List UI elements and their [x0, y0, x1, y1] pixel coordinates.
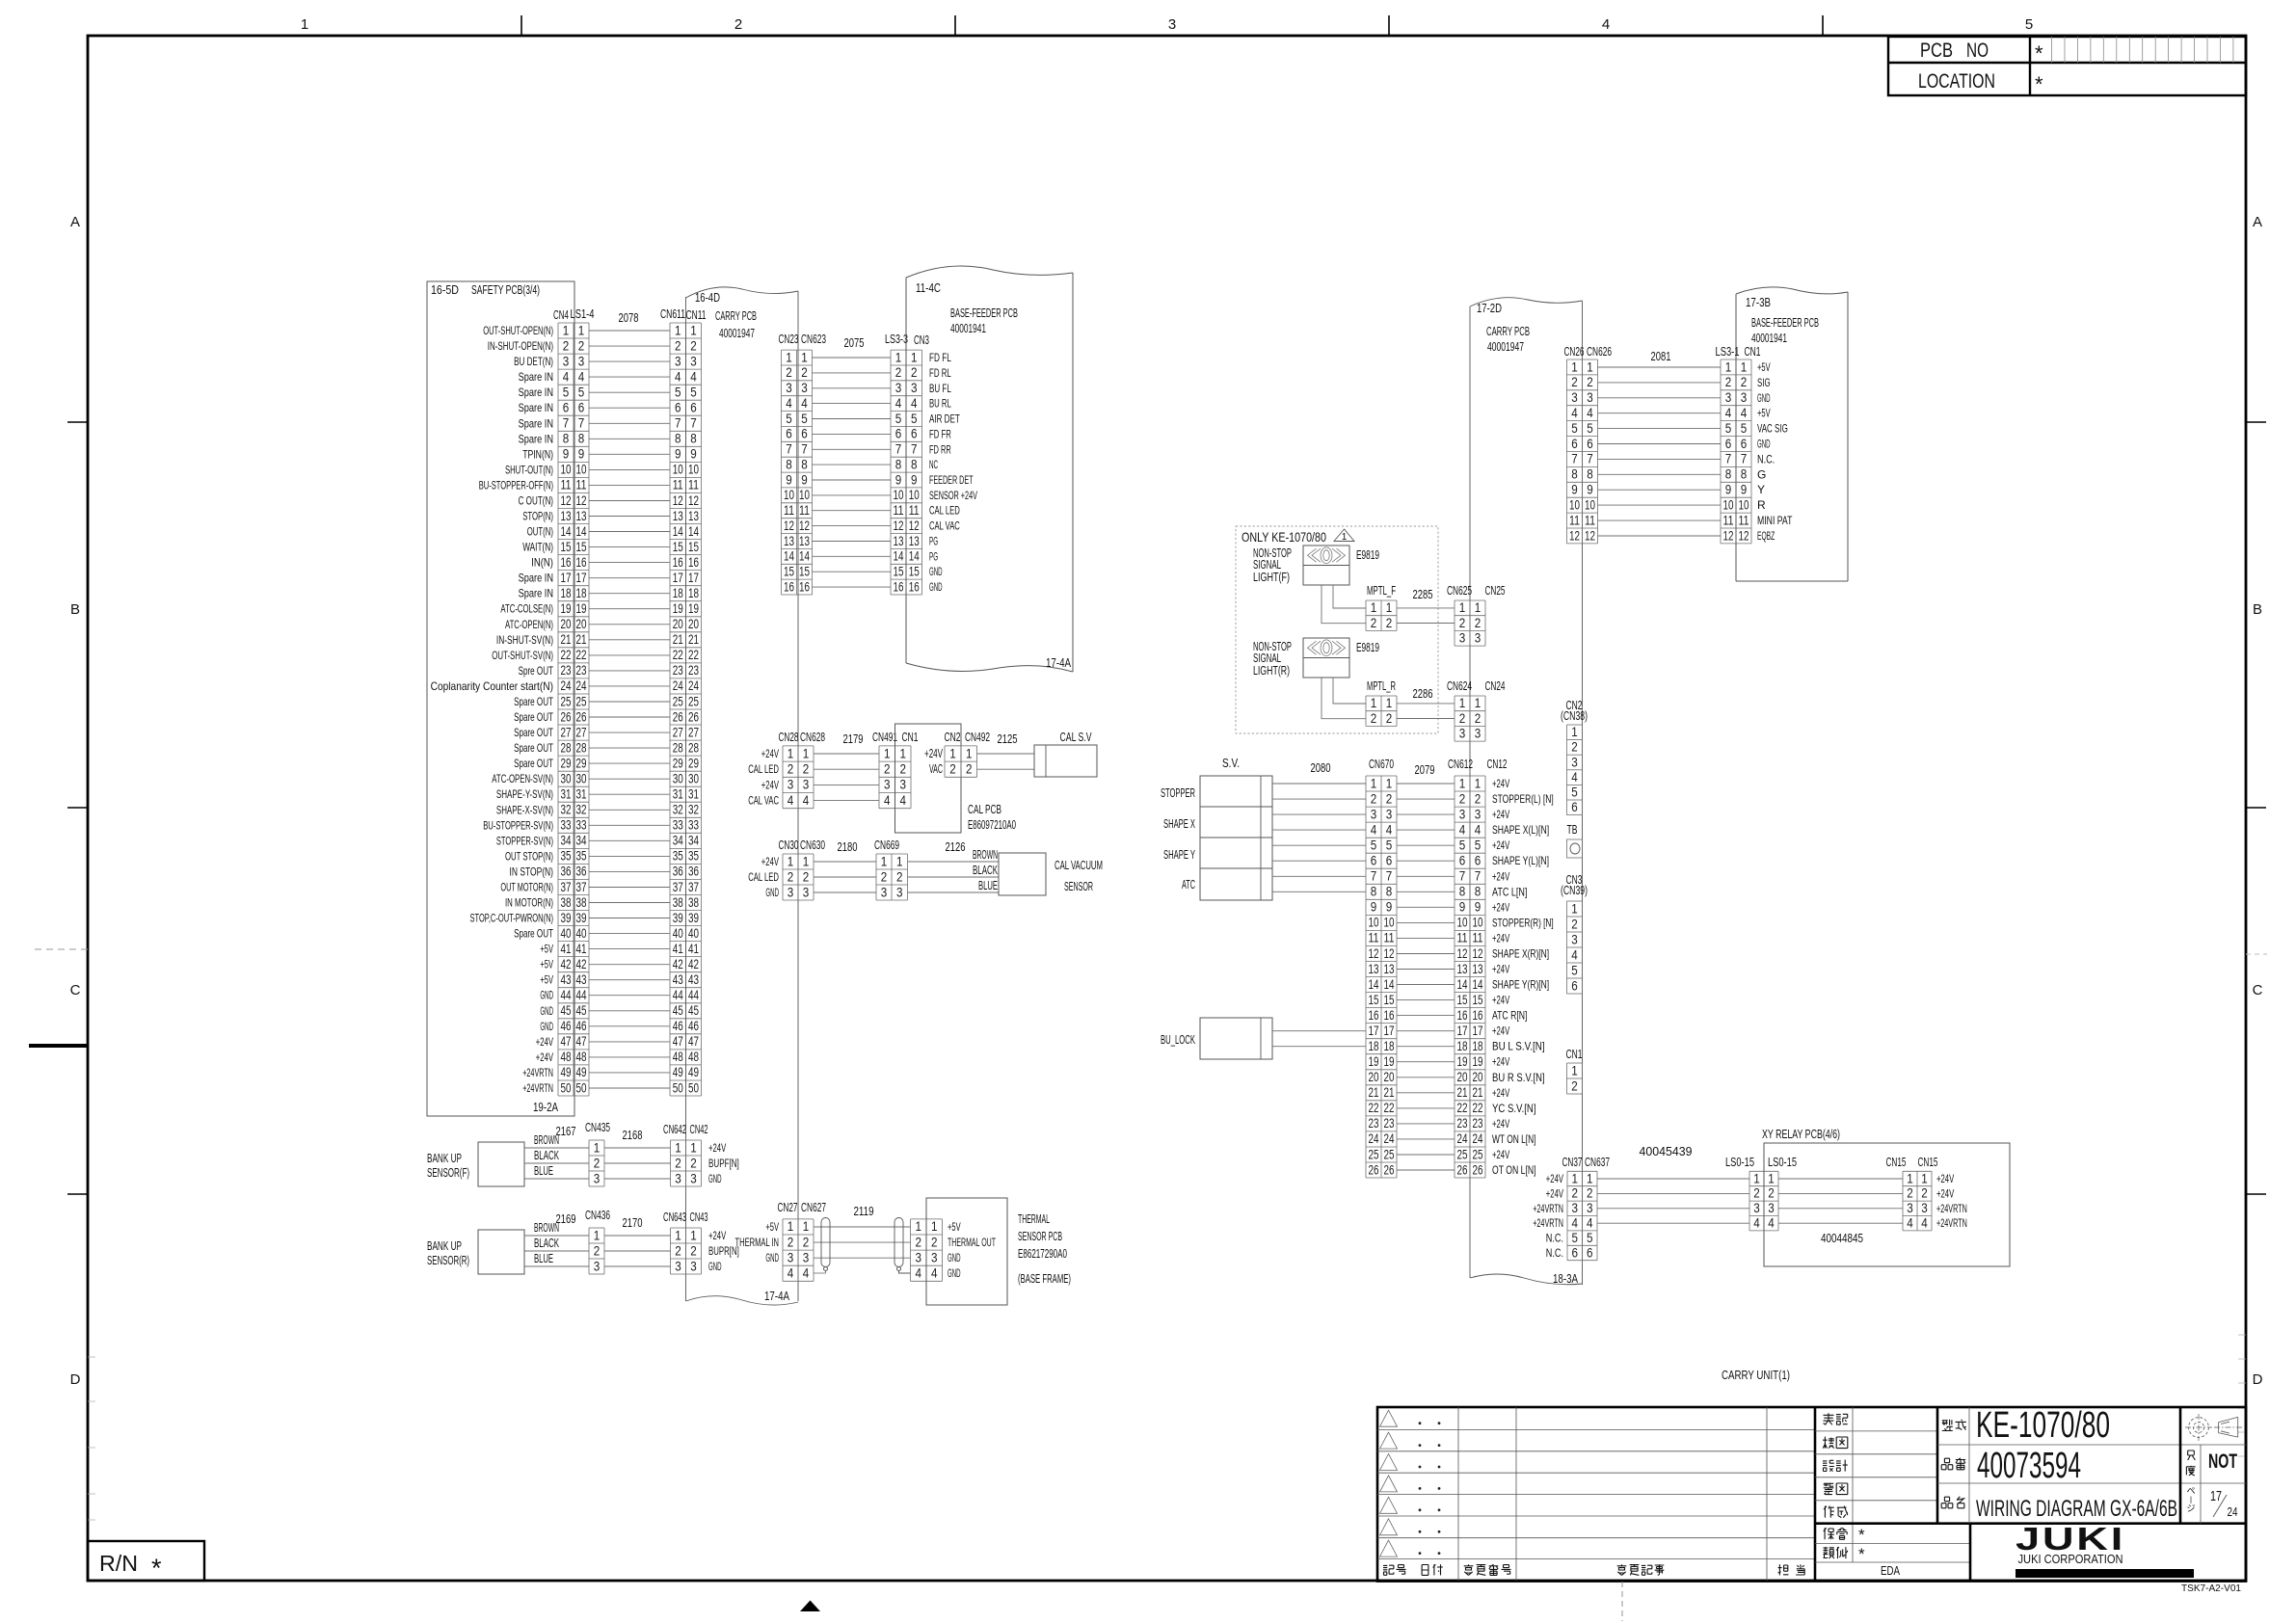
svg-text:26: 26	[1473, 1161, 1483, 1177]
svg-text:Spare OUT: Spare OUT	[514, 757, 553, 770]
svg-text:CN625: CN625	[1447, 583, 1472, 598]
CN3 signal labels	[929, 351, 977, 594]
svg-text:40: 40	[673, 925, 683, 941]
svg-text:44: 44	[688, 987, 699, 1002]
approval section labels	[1815, 1407, 1937, 1562]
svg-text:3: 3	[1921, 1200, 1928, 1215]
svg-text:OUT(N): OUT(N)	[527, 525, 553, 539]
svg-text:2075: 2075	[844, 335, 865, 350]
svg-text:CN23: CN23	[779, 332, 799, 346]
connector CN670 pin table	[1366, 757, 1397, 1178]
svg-text:1: 1	[1921, 1170, 1928, 1185]
svg-text:4: 4	[1475, 821, 1482, 837]
svg-text:STOPPER(L) [N]: STOPPER(L) [N]	[1492, 792, 1554, 806]
svg-text:SHAPE Y(L)[N]: SHAPE Y(L)[N]	[1492, 854, 1549, 867]
svg-text:2285: 2285	[1413, 587, 1433, 601]
svg-text:40: 40	[576, 925, 587, 941]
svg-text:BLUE: BLUE	[534, 1163, 553, 1178]
svg-text:+24V: +24V	[1492, 1024, 1509, 1038]
svg-text:LS1-4: LS1-4	[571, 306, 595, 321]
svg-text:ATC L[N]: ATC L[N]	[1492, 885, 1527, 898]
svg-text:+5V: +5V	[1757, 360, 1771, 374]
svg-text:9: 9	[895, 471, 902, 487]
svg-text:ジ: ジ	[2186, 1503, 2195, 1513]
svg-text:*: *	[1858, 1545, 1865, 1563]
PCB THERMAL SENSOR PCB box	[926, 1198, 1071, 1305]
svg-text:16: 16	[673, 554, 683, 570]
connector MPTL_F pin table	[1366, 583, 1397, 630]
svg-text:27: 27	[561, 724, 572, 739]
svg-text:20: 20	[1457, 1069, 1468, 1084]
svg-text:*: *	[2035, 72, 2043, 96]
svg-text:2: 2	[916, 1234, 922, 1249]
svg-text:MPTL_F: MPTL_F	[1367, 583, 1396, 598]
svg-text:8: 8	[911, 456, 918, 471]
sheet center dashed mark left	[35, 949, 2267, 954]
svg-text:22: 22	[688, 647, 699, 662]
svg-text:Spare IN: Spare IN	[519, 572, 553, 585]
svg-text:*: *	[151, 1554, 162, 1583]
svg-text:3: 3	[1459, 806, 1466, 821]
svg-text:3: 3	[803, 777, 810, 792]
svg-text:2: 2	[675, 1242, 681, 1258]
svg-text:21: 21	[1473, 1084, 1483, 1100]
svg-text:9: 9	[1725, 482, 1732, 497]
svg-text:CN26: CN26	[1564, 344, 1585, 359]
svg-text:SENSOR +24V: SENSOR +24V	[929, 489, 977, 502]
wire harness 2180 (3 wires)	[814, 839, 876, 892]
svg-text:4: 4	[900, 792, 907, 808]
svg-text:10: 10	[1739, 496, 1749, 512]
thermal out pin table	[911, 1218, 997, 1281]
svg-text:7: 7	[1475, 868, 1482, 884]
svg-text:EDA: EDA	[1881, 1563, 1900, 1578]
svg-text:41: 41	[561, 941, 572, 956]
svg-text:1: 1	[896, 853, 903, 868]
svg-text:2: 2	[1371, 615, 1377, 630]
svg-text:3: 3	[1741, 389, 1748, 405]
svg-text:33: 33	[561, 817, 572, 833]
svg-text:+5V: +5V	[1757, 407, 1771, 420]
svg-text:8: 8	[1741, 466, 1748, 482]
svg-text:13: 13	[909, 533, 920, 548]
svg-text:10: 10	[894, 487, 904, 502]
svg-text:2: 2	[803, 868, 810, 884]
svg-text:14: 14	[894, 548, 904, 564]
NON-STOP SIGNAL LIGHT(R) lamp symbol E9819	[1253, 638, 1379, 678]
CAL VACUUM SENSOR box	[999, 853, 1103, 895]
svg-text:29: 29	[576, 755, 587, 770]
svg-text:4: 4	[1386, 821, 1393, 837]
CN12 signal labels	[1492, 777, 1554, 1177]
svg-text:6: 6	[1475, 853, 1482, 868]
svg-text:12: 12	[1457, 945, 1468, 961]
svg-text:6: 6	[1587, 1244, 1593, 1260]
svg-text:1: 1	[301, 16, 308, 33]
svg-text:CAL VAC: CAL VAC	[748, 794, 779, 808]
svg-text:G: G	[1757, 467, 1766, 481]
svg-text:3: 3	[895, 380, 902, 395]
svg-text:IN(N): IN(N)	[531, 556, 553, 570]
svg-text:4: 4	[803, 792, 810, 808]
svg-text:10: 10	[1569, 496, 1580, 512]
svg-text:GND: GND	[540, 1020, 553, 1033]
svg-text:2: 2	[931, 1234, 938, 1249]
svg-text:4: 4	[1572, 1215, 1579, 1231]
svg-text:40073594: 40073594	[1977, 1446, 2081, 1486]
svg-text:19: 19	[1457, 1053, 1468, 1069]
svg-text:14: 14	[561, 523, 572, 539]
svg-text:10: 10	[1473, 915, 1483, 930]
svg-text:24: 24	[1473, 1131, 1483, 1146]
svg-text:+24V: +24V	[924, 746, 943, 760]
sensor F lead wires BROWN BLACK BLUE	[524, 1124, 589, 1179]
svg-text:7: 7	[690, 415, 697, 431]
svg-text:4: 4	[1907, 1215, 1913, 1231]
svg-text:26: 26	[561, 708, 572, 724]
svg-text:+5V: +5V	[765, 1220, 779, 1234]
PCB SAFETY PCB(3/4) outline 16-5D	[427, 281, 574, 1116]
svg-text:1: 1	[1475, 695, 1482, 710]
svg-text:11: 11	[1457, 930, 1468, 945]
svg-text:18: 18	[1384, 1038, 1395, 1053]
svg-text:14: 14	[576, 523, 587, 539]
svg-text:1: 1	[803, 745, 810, 760]
svg-text:BASE-FEEDER PCB: BASE-FEEDER PCB	[950, 306, 1018, 320]
svg-text:2119: 2119	[854, 1204, 874, 1218]
svg-text:40: 40	[561, 925, 572, 941]
svg-text:14: 14	[1457, 976, 1468, 992]
svg-text:42: 42	[576, 956, 587, 971]
svg-text:22: 22	[561, 647, 572, 662]
svg-text:2180: 2180	[838, 839, 858, 854]
svg-text:2: 2	[788, 868, 794, 884]
svg-text:+24V: +24V	[761, 747, 779, 760]
svg-text:+24V: +24V	[1492, 808, 1509, 821]
svg-text:CN4: CN4	[553, 307, 569, 322]
svg-text:8: 8	[690, 431, 697, 446]
sensor R lead wires BROWN BLACK BLUE	[524, 1211, 589, 1266]
svg-text:+5V: +5V	[540, 958, 553, 971]
svg-text:5: 5	[1571, 420, 1578, 436]
svg-text:3: 3	[690, 1170, 697, 1185]
svg-text:4: 4	[916, 1265, 922, 1281]
svg-text:13: 13	[1369, 961, 1379, 976]
svg-text:4: 4	[1587, 1215, 1593, 1231]
svg-text:16-5D: 16-5D	[431, 282, 459, 297]
terminal TB	[1567, 822, 1583, 858]
svg-text:FD RR: FD RR	[929, 442, 951, 456]
svg-text:STOP,C-OUT-PWRON(N): STOP,C-OUT-PWRON(N)	[470, 912, 554, 925]
svg-text:33: 33	[673, 817, 683, 833]
svg-text:50: 50	[561, 1079, 572, 1095]
svg-text:CN1: CN1	[1745, 344, 1761, 359]
svg-text:9: 9	[1459, 899, 1466, 915]
svg-text:Spare IN: Spare IN	[519, 401, 553, 414]
svg-text:30: 30	[576, 771, 587, 786]
svg-text:1: 1	[1907, 1170, 1913, 1185]
svg-text:11: 11	[1723, 512, 1734, 527]
svg-text:2: 2	[1768, 1185, 1775, 1201]
svg-text:+24V: +24V	[1492, 777, 1509, 790]
svg-text:5: 5	[1371, 838, 1377, 853]
svg-text:15: 15	[1473, 992, 1483, 1007]
connector CN624 / CN24 pin table	[1447, 678, 1506, 741]
svg-text:SHAPE X(R)[N]: SHAPE X(R)[N]	[1492, 947, 1549, 961]
svg-text:LS0-15: LS0-15	[1725, 1155, 1754, 1169]
svg-text:2: 2	[911, 364, 918, 380]
svg-text:CARRY PCB: CARRY PCB	[715, 308, 757, 323]
svg-text:45: 45	[688, 1002, 699, 1018]
svg-text:CN623: CN623	[801, 332, 826, 346]
connector CN669 pin table	[874, 838, 908, 900]
connector CN30 / CN630 pin table	[748, 838, 825, 900]
svg-text:3: 3	[1907, 1200, 1913, 1215]
svg-text:SHAPE Y: SHAPE Y	[1163, 847, 1195, 862]
svg-text:CN670: CN670	[1369, 757, 1394, 771]
svg-text:IN-SHUT-SV(N): IN-SHUT-SV(N)	[496, 633, 553, 647]
svg-text:A: A	[2253, 214, 2262, 230]
svg-text:14: 14	[673, 523, 683, 539]
svg-text:LS0-15: LS0-15	[1768, 1155, 1797, 1169]
svg-text:+24V: +24V	[1492, 1148, 1509, 1161]
svg-text:BU L S.V.[N]: BU L S.V.[N]	[1492, 1040, 1545, 1053]
svg-text:SENSOR PCB: SENSOR PCB	[1018, 1229, 1062, 1243]
svg-text:CAL PCB: CAL PCB	[968, 802, 1001, 816]
svg-text:22: 22	[1384, 1100, 1395, 1115]
svg-text:YC S.V.[N]: YC S.V.[N]	[1492, 1102, 1536, 1115]
svg-text:FD FR: FD FR	[929, 427, 951, 440]
svg-text:11: 11	[1473, 930, 1483, 945]
fold dashed line below title block	[1621, 1582, 1623, 1621]
svg-text:TSK7-A2-V01: TSK7-A2-V01	[2181, 1583, 2241, 1594]
svg-text:CN630: CN630	[800, 838, 825, 852]
svg-text:IN STOP(N): IN STOP(N)	[510, 865, 554, 878]
svg-text:1: 1	[675, 1227, 681, 1242]
svg-text:BU-STOPPER-OFF(N): BU-STOPPER-OFF(N)	[479, 478, 553, 492]
CARRY UNIT(1) sheet note	[1722, 1368, 1790, 1382]
svg-text:D: D	[2253, 1371, 2263, 1388]
svg-text:9: 9	[563, 446, 570, 462]
svg-text:1: 1	[1386, 775, 1393, 790]
svg-text:12: 12	[1369, 945, 1379, 961]
svg-text:2: 2	[896, 868, 903, 884]
svg-text:1: 1	[803, 853, 810, 868]
svg-text:13: 13	[561, 508, 572, 523]
svg-text:SENSOR(F): SENSOR(F)	[427, 1165, 469, 1180]
svg-text:32: 32	[576, 802, 587, 817]
svg-text:FD RL: FD RL	[929, 366, 951, 380]
svg-text:21: 21	[1369, 1084, 1379, 1100]
svg-text:5: 5	[911, 411, 918, 426]
svg-text:48: 48	[561, 1049, 572, 1064]
svg-text:23: 23	[688, 662, 699, 678]
svg-text:CN30: CN30	[779, 838, 799, 852]
svg-text:37: 37	[673, 879, 683, 894]
svg-text:5: 5	[1571, 962, 1578, 977]
svg-text:*: *	[1858, 1526, 1865, 1544]
svg-text:THERMAL IN: THERMAL IN	[735, 1236, 780, 1249]
svg-text:XY RELAY PCB(4/6): XY RELAY PCB(4/6)	[1762, 1127, 1840, 1141]
svg-text:3: 3	[1475, 630, 1482, 646]
svg-text:+5V: +5V	[540, 973, 553, 987]
svg-text:6: 6	[1459, 853, 1466, 868]
svg-text:11: 11	[1569, 512, 1580, 527]
svg-text:2: 2	[786, 364, 792, 380]
svg-text:4: 4	[1753, 1215, 1760, 1231]
svg-text:D: D	[70, 1371, 81, 1388]
svg-text:CN624: CN624	[1447, 678, 1472, 693]
svg-text:10: 10	[1723, 496, 1734, 512]
svg-text:7: 7	[1571, 451, 1578, 466]
svg-text:1: 1	[675, 322, 681, 337]
svg-text:+24V: +24V	[1492, 931, 1509, 945]
svg-text:18: 18	[561, 585, 572, 600]
svg-text:6: 6	[563, 400, 570, 415]
svg-text:15: 15	[1457, 992, 1468, 1007]
svg-text:3: 3	[1475, 726, 1482, 741]
svg-text:10: 10	[784, 487, 794, 502]
svg-text:1: 1	[1587, 1170, 1593, 1185]
svg-text:CN643: CN643	[663, 1210, 686, 1224]
svg-text:25: 25	[561, 693, 572, 708]
revision history table	[1377, 1407, 1815, 1581]
svg-text:49: 49	[561, 1064, 572, 1079]
BU_LOCK block	[1161, 1018, 1272, 1059]
svg-text:3: 3	[788, 884, 794, 899]
svg-text:CARRY PCB: CARRY PCB	[1486, 324, 1530, 338]
svg-text:10: 10	[1369, 915, 1379, 930]
svg-text:SENSOR(R): SENSOR(R)	[427, 1253, 469, 1267]
svg-text:1: 1	[881, 853, 888, 868]
svg-text:CN15: CN15	[1918, 1155, 1938, 1169]
svg-text:1: 1	[1768, 1170, 1775, 1185]
svg-text:7: 7	[911, 441, 918, 457]
svg-text:9: 9	[1475, 899, 1482, 915]
svg-text:+24V: +24V	[761, 778, 779, 791]
PCB BASE-FEEDER PCB 17-3B outline	[1736, 287, 1848, 581]
svg-text:BU-STOPPER-SV(N): BU-STOPPER-SV(N)	[483, 818, 553, 832]
svg-text:+24V: +24V	[708, 1229, 726, 1242]
svg-text:FD FL: FD FL	[929, 351, 951, 364]
svg-text:26: 26	[576, 708, 587, 724]
svg-text:13: 13	[688, 508, 699, 523]
svg-text:1: 1	[1571, 900, 1578, 916]
svg-text:STOP(N): STOP(N)	[522, 510, 553, 523]
svg-text:15: 15	[909, 564, 920, 579]
svg-text:OT ON L[N]: OT ON L[N]	[1492, 1163, 1536, 1177]
svg-text:20: 20	[673, 616, 683, 631]
svg-text:8: 8	[1571, 466, 1578, 482]
wire harness 2126 with BROWN BLACK BLUE wires	[908, 839, 1000, 892]
svg-text:11: 11	[784, 502, 794, 518]
svg-text:+24V: +24V	[1492, 1117, 1509, 1131]
svg-text:2080: 2080	[1311, 760, 1331, 775]
svg-text:2078: 2078	[619, 310, 639, 325]
svg-text:SHAPE-Y-SV(N): SHAPE-Y-SV(N)	[496, 787, 553, 801]
svg-text:44: 44	[673, 987, 683, 1002]
svg-text:15: 15	[1384, 992, 1395, 1007]
projection symbol / scale / page column	[2180, 1407, 2242, 1524]
connector CN611 / CN11 pin table	[660, 306, 707, 1096]
svg-text:GND: GND	[540, 989, 553, 1002]
svg-text:ONLY KE-1070/80: ONLY KE-1070/80	[1241, 529, 1326, 545]
svg-text:5: 5	[1386, 838, 1393, 853]
svg-text:10: 10	[909, 487, 920, 502]
svg-text:CN612: CN612	[1448, 757, 1473, 771]
svg-text:6: 6	[786, 426, 792, 441]
svg-text:GND: GND	[929, 565, 943, 578]
wire harness 2170 (3 wires)	[604, 1215, 671, 1266]
svg-text:46: 46	[561, 1018, 572, 1033]
svg-text:7: 7	[675, 415, 681, 431]
PCB XY RELAY PCB(4/6) box	[1762, 1127, 2010, 1266]
svg-text:STOPPER(R) [N]: STOPPER(R) [N]	[1492, 916, 1554, 929]
svg-text:19: 19	[673, 600, 683, 616]
svg-text:3: 3	[1571, 389, 1578, 405]
svg-text:2125: 2125	[998, 732, 1018, 746]
svg-text:12: 12	[1569, 527, 1580, 543]
svg-text:4: 4	[1921, 1215, 1928, 1231]
svg-text:3: 3	[1725, 389, 1732, 405]
svg-text:37: 37	[688, 879, 699, 894]
svg-text:17: 17	[1384, 1023, 1395, 1038]
svg-text:44: 44	[561, 987, 572, 1002]
svg-text:S.V.: S.V.	[1222, 756, 1240, 770]
svg-text:35: 35	[576, 848, 587, 864]
svg-text:+24VRTN: +24VRTN	[522, 1081, 553, 1095]
svg-text:15: 15	[1369, 992, 1379, 1007]
svg-text:32: 32	[673, 802, 683, 817]
svg-text:6: 6	[1741, 436, 1748, 451]
svg-text:GND: GND	[1757, 438, 1771, 451]
svg-text:18-3A: 18-3A	[1553, 1271, 1578, 1286]
svg-text:BANK UP: BANK UP	[427, 1151, 462, 1165]
CN1 signal labels	[1757, 360, 1793, 543]
svg-text:1: 1	[966, 745, 973, 760]
svg-text:4: 4	[931, 1265, 938, 1281]
svg-text:1: 1	[803, 1218, 810, 1234]
svg-text:11: 11	[688, 477, 699, 492]
svg-text:19: 19	[1384, 1053, 1395, 1069]
svg-text:3: 3	[1571, 754, 1578, 769]
svg-text:CN43: CN43	[690, 1210, 708, 1224]
svg-text:15: 15	[894, 564, 904, 579]
svg-text:40001947: 40001947	[719, 326, 755, 340]
svg-text:Spare IN: Spare IN	[519, 587, 553, 600]
svg-text:1: 1	[1342, 532, 1348, 543]
svg-text:15: 15	[784, 564, 794, 579]
svg-text:9: 9	[1587, 482, 1593, 497]
svg-text:12: 12	[1585, 527, 1595, 543]
svg-text:10: 10	[561, 462, 572, 477]
svg-text:41: 41	[673, 941, 683, 956]
svg-text:1: 1	[931, 1218, 938, 1234]
JUKI logo block	[1970, 1521, 2194, 1581]
svg-text:1: 1	[1725, 359, 1732, 374]
svg-text:6: 6	[1572, 1244, 1579, 1260]
svg-text:9: 9	[801, 471, 808, 487]
svg-text:47: 47	[673, 1033, 683, 1049]
svg-text:43: 43	[688, 971, 699, 987]
svg-text:2: 2	[949, 761, 956, 777]
svg-text:IN MOTOR(N): IN MOTOR(N)	[505, 896, 553, 910]
svg-text:4: 4	[563, 368, 570, 384]
svg-text:CN637: CN637	[1585, 1155, 1610, 1169]
svg-text:10: 10	[673, 462, 683, 477]
svg-text:21: 21	[576, 631, 587, 647]
R/N revision box	[88, 1541, 204, 1583]
